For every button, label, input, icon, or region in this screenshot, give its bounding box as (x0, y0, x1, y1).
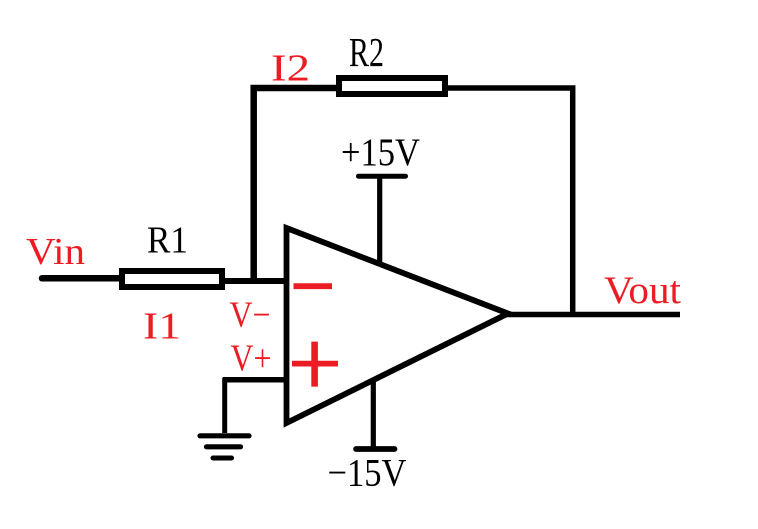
wire +15V supply (377, 176, 382, 267)
ground symbol (200, 436, 249, 458)
resistor R1 (122, 271, 222, 287)
svg-text:R1: R1 (147, 220, 188, 262)
svg-text:Vin: Vin (26, 231, 85, 273)
svg-text:I1: I1 (143, 306, 181, 348)
wire feedback loop (left vertical, top run, right vertical) (254, 88, 400, 284)
wire Vin input to R1 and inverting input (42, 275, 130, 282)
non-inverting input marker (red plus) (292, 342, 338, 387)
inverting input marker (red minus) (294, 283, 333, 289)
power bar -15V (356, 446, 395, 452)
svg-text:Vout: Vout (604, 269, 681, 312)
wire output Vout (506, 312, 680, 318)
wire ground drop (222, 378, 227, 433)
svg-text:V−: V− (230, 295, 271, 336)
power bar +15V (359, 174, 406, 179)
svg-text:−15V: −15V (328, 452, 407, 495)
wire -15V supply (371, 377, 376, 449)
op-amp U1 triangle (287, 228, 509, 423)
svg-text:V+: V+ (231, 338, 272, 380)
resistor R2 (339, 78, 445, 94)
svg-text:+15V: +15V (341, 131, 420, 174)
wire non-inverting input V+ (223, 377, 288, 383)
svg-text:I2: I2 (271, 48, 310, 90)
svg-text:R2: R2 (349, 29, 384, 75)
